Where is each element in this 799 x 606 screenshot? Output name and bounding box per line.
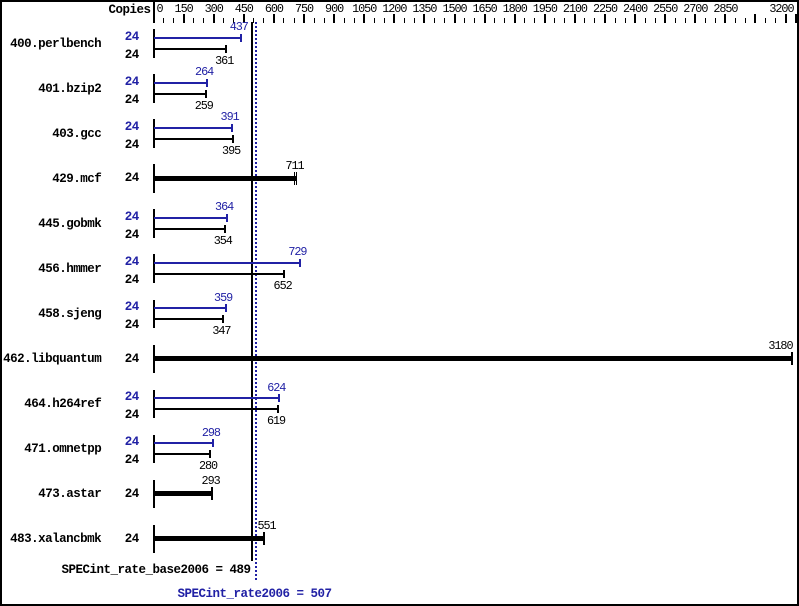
471.omnetpp group axis whisker: [153, 435, 155, 463]
401.bzip2 peak bar (264): [154, 82, 207, 84]
471.omnetpp base bar (280): [154, 453, 210, 455]
429.mcf base bar (711): [154, 176, 297, 181]
header 'Copies' label: [108, 4, 150, 17]
benchmark group 473.astar: [38, 488, 101, 501]
464.h264ref group axis whisker: [153, 390, 155, 418]
benchmark group 483.xalancbmk: [10, 533, 101, 546]
471.omnetpp peak bar (298): [154, 442, 214, 444]
403.gcc copies labels: [125, 120, 139, 133]
471.omnetpp copies labels: [125, 436, 139, 449]
403.gcc peak bar (391): [154, 127, 233, 129]
401.bzip2 copies labels: [125, 75, 139, 88]
400.perlbench peak bar (437): [154, 37, 242, 39]
400.perlbench base bar (361): [154, 48, 226, 50]
429.mcf group axis whisker: [153, 164, 155, 192]
401.bzip2 group axis whisker: [153, 74, 155, 102]
429.mcf copies label: [125, 172, 139, 185]
SPECint_rate2006 result text: [177, 587, 331, 600]
458.sjeng group axis whisker: [153, 300, 155, 328]
462.libquantum group axis whisker: [153, 345, 155, 373]
403.gcc base bar (395): [154, 138, 233, 140]
benchmark group 471.omnetpp: [24, 443, 101, 456]
SPECint_rate_base2006 result text: [61, 563, 250, 576]
SPECint_rate2006 reference line (507, blue dotted): [255, 22, 257, 582]
456.hmmer copies labels: [125, 256, 139, 269]
458.sjeng base bar (347): [154, 318, 224, 320]
x-axis scale labels: [157, 4, 163, 16]
445.gobmk copies labels: [125, 211, 139, 224]
473.astar group axis whisker: [153, 480, 155, 508]
benchmark group 464.h264ref: [24, 398, 101, 411]
456.hmmer group axis whisker: [153, 254, 155, 282]
400.perlbench group axis whisker: [153, 29, 155, 57]
445.gobmk base bar (354): [154, 228, 225, 230]
473.astar copies label: [125, 488, 139, 501]
y-axis line (value 0): [153, 0, 155, 23]
462.libquantum copies label: [125, 352, 139, 365]
benchmark group 456.hmmer: [38, 263, 101, 276]
445.gobmk group axis whisker: [153, 209, 155, 237]
benchmark group 400.perlbench: [10, 37, 101, 50]
benchmark group 445.gobmk: [38, 218, 101, 231]
400.perlbench copies labels: [125, 30, 139, 43]
403.gcc group axis whisker: [153, 119, 155, 147]
benchmark group 429.mcf: [52, 173, 101, 186]
456.hmmer base bar (652): [154, 273, 285, 275]
SPECint_rate_base2006 reference line (489): [251, 22, 253, 561]
458.sjeng peak bar (359): [154, 307, 226, 309]
benchmark group 462.libquantum: [3, 353, 101, 366]
445.gobmk peak bar (364): [154, 217, 227, 219]
benchmark group 401.bzip2: [38, 82, 101, 95]
464.h264ref base bar (619): [154, 408, 278, 410]
benchmark group 458.sjeng: [38, 308, 101, 321]
x-axis tick marks: [163, 18, 164, 23]
464.h264ref peak bar (624): [154, 397, 279, 399]
483.xalancbmk copies label: [125, 533, 139, 546]
483.xalancbmk base bar (551): [154, 536, 265, 541]
464.h264ref copies labels: [125, 391, 139, 404]
401.bzip2 base bar (259): [154, 93, 206, 95]
473.astar base bar (293): [154, 491, 213, 496]
458.sjeng copies labels: [125, 301, 139, 314]
456.hmmer peak bar (729): [154, 262, 300, 264]
462.libquantum base bar (3180): [154, 356, 792, 361]
benchmark group 403.gcc: [52, 128, 101, 141]
483.xalancbmk group axis whisker: [153, 525, 155, 553]
